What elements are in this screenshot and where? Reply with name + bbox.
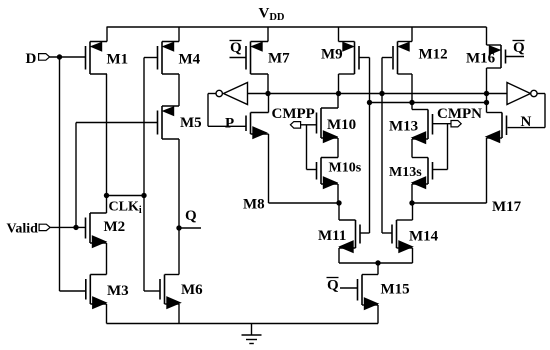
node M13s/M14/M17 junction — [409, 200, 414, 205]
node Q junction — [176, 225, 181, 230]
wire M4 source to VDD — [178, 27, 180, 42]
svg-text:P: P — [225, 116, 234, 132]
wire M13 gate to CMPN pin — [433, 123, 452, 125]
inverter U1 — [216, 83, 248, 105]
transistor M6 (NMOS) — [160, 275, 203, 309]
power rail VDD — [107, 26, 487, 28]
node Valid junction (M5 gate tap) — [73, 225, 78, 230]
wire upper latch line — [248, 93, 508, 95]
ground rail — [107, 323, 379, 325]
svg-text:M13s: M13s — [389, 165, 422, 180]
svg-text:M11: M11 — [318, 228, 346, 244]
transistor M2 (NMOS) — [86, 213, 126, 247]
svg-text:Q: Q — [230, 40, 242, 56]
transistor M10s (NMOS) — [317, 158, 362, 189]
wire M1 source to VDD — [106, 27, 108, 42]
svg-text:M14: M14 — [409, 229, 439, 245]
wire M11 gate to cross-couple — [360, 232, 370, 234]
wire M7 source to VDD — [267, 27, 269, 42]
transistor M13s (NMOS) — [389, 158, 433, 189]
wire M8 drain up to latch line — [268, 94, 270, 113]
net label Qbar at M16 gate — [513, 40, 526, 56]
net label Qbar at M15 gate — [327, 278, 340, 294]
wire M11 drain up to junction — [338, 203, 340, 220]
transistor M9 (PMOS) — [321, 42, 359, 75]
wire CLKi node horizontal — [107, 195, 145, 197]
wire M9 drain to latch line — [338, 74, 340, 94]
node upper line at M12/M14 gates — [379, 91, 384, 96]
wire M7 drain to latch line — [267, 74, 269, 94]
svg-text:M17: M17 — [492, 199, 522, 215]
node upper line at M16 — [484, 91, 489, 96]
node lower line at M9/M11 gates — [367, 100, 372, 105]
transistor M14 (NMOS) — [392, 220, 439, 252]
node CLKi right junction — [141, 193, 146, 198]
transistor M7 (PMOS) — [246, 42, 290, 75]
transistor M10 (NMOS) — [317, 108, 357, 142]
wire M1 drain down to CLKi node — [106, 74, 108, 196]
node common source junction — [375, 260, 380, 265]
svg-text:M4: M4 — [179, 52, 201, 68]
svg-text:M6: M6 — [181, 282, 203, 298]
wire M10s source down to M11 drain node — [337, 184, 339, 203]
svg-text:VDD: VDD — [259, 6, 285, 24]
wire M11/M14 common source line — [339, 262, 413, 264]
wire M2 drain up to CLKi node — [106, 196, 108, 214]
transistor M1 (PMOS) — [86, 42, 129, 75]
svg-text:CLKi: CLKi — [109, 200, 142, 217]
wire U2 output to M17 gate (node N) — [508, 94, 546, 128]
transistor M13 (NMOS) — [389, 110, 433, 144]
wire M14 gate to cross-couple — [382, 232, 392, 234]
wire M4 drain to M5 source — [178, 74, 180, 106]
wire D node down to M3 gate — [60, 57, 86, 291]
node upper line at M7/M8 — [265, 91, 270, 96]
wire M17 source down and left to M14 drain — [412, 138, 487, 203]
wire M10 source to M10s drain — [337, 138, 339, 158]
wire M5 gate to Valid node — [76, 123, 158, 228]
svg-text:M15: M15 — [381, 282, 410, 298]
wire Valid pin to M2 gate — [50, 226, 85, 228]
wire M14 drain up to junction — [412, 203, 414, 220]
transistor M17 (NMOS) — [487, 113, 522, 216]
svg-text:Valid: Valid — [7, 222, 39, 237]
svg-text:M5: M5 — [180, 115, 202, 131]
svg-text:M10: M10 — [327, 117, 356, 133]
wire CMPP pin to M10 gate — [301, 124, 317, 126]
input pin CMPP — [290, 122, 300, 129]
transistor M12 (PMOS) — [393, 42, 448, 75]
wire M15 gate stub — [340, 287, 357, 289]
wire M4 gate to CLKi node — [144, 58, 158, 196]
svg-text:M3: M3 — [107, 283, 129, 299]
input pin D — [26, 51, 50, 67]
wire CMPN to M13s gate — [433, 124, 448, 170]
transistor M16 (PMOS) — [466, 45, 506, 68]
svg-text:Q: Q — [327, 278, 339, 294]
wire M3 source to ground rail — [106, 304, 108, 324]
wire M12 drain to lower line — [411, 74, 413, 103]
transistor M3 (NMOS) — [86, 275, 129, 309]
transistor M11 (NMOS) — [318, 220, 360, 252]
svg-text:CMPN: CMPN — [437, 106, 482, 122]
wire lower latch line — [370, 102, 487, 104]
svg-text:M16: M16 — [466, 51, 496, 67]
svg-text:M13: M13 — [389, 119, 418, 135]
transistor M15 (NMOS) — [358, 275, 410, 310]
wire M5 drain down to Q node and M6 drain — [178, 139, 180, 275]
wire M12 gate cross-couple to M14 gate — [382, 58, 392, 234]
svg-text:M7: M7 — [268, 51, 290, 67]
wire M9 gate cross-couple to M11 gate — [359, 58, 370, 234]
wire M13 drain up to lower line — [411, 103, 413, 110]
wire M6 source to ground rail — [178, 304, 180, 324]
svg-text:CMPP: CMPP — [272, 106, 315, 122]
wire M8 source down and right to M11 drain — [269, 134, 340, 203]
svg-text:D: D — [26, 51, 37, 67]
wire Q output stub — [179, 227, 201, 229]
wire D pin to M1 gate — [50, 56, 86, 58]
svg-text:M9: M9 — [321, 47, 343, 63]
node CLKi left junction — [104, 193, 109, 198]
transistor M8 (NMOS) — [243, 113, 269, 213]
wire M11 source down to coupling line — [338, 248, 340, 263]
wire M13 source to M13s drain — [411, 139, 413, 158]
svg-text:M1: M1 — [107, 52, 129, 68]
svg-text:M12: M12 — [419, 47, 448, 63]
node lower line at M16/M17 — [484, 100, 489, 105]
ground symbol — [242, 324, 262, 344]
wire M2 source down to M3 drain — [106, 243, 108, 275]
wire U1 output to M8 gate (node P) — [208, 94, 246, 127]
wire M16 drain down to M17 drain — [486, 68, 488, 113]
svg-text:M10s: M10s — [329, 161, 362, 176]
input pin Valid — [7, 222, 51, 237]
transistor M4 (PMOS) — [158, 42, 201, 75]
svg-text:Q: Q — [185, 208, 197, 224]
node lower line at M12/M13 — [409, 100, 414, 105]
svg-text:M2: M2 — [104, 219, 126, 235]
svg-text:M8: M8 — [243, 197, 265, 213]
node D junction — [57, 54, 62, 59]
transistor M5 (PMOS) — [158, 106, 202, 139]
wire M13s source down to M14 drain node — [411, 184, 413, 203]
svg-text:N: N — [521, 114, 532, 130]
input pin CMPN — [451, 121, 461, 127]
wire M9 source to VDD — [338, 27, 340, 42]
wire CLKi node down to M6 gate — [144, 196, 160, 292]
wire M10 drain up to latch line — [337, 94, 339, 109]
wire M14 source down to coupling line — [412, 248, 414, 263]
svg-text:Q: Q — [513, 40, 525, 56]
wire M7 gate stub (Qbar) — [230, 57, 247, 59]
net label Qbar at M7 gate — [230, 40, 243, 56]
wire M16 source to VDD — [486, 27, 488, 45]
node M8/M10s/M11 junction — [336, 200, 341, 205]
wire CMPP to M10s gate — [307, 125, 317, 170]
wire M12 source to VDD — [411, 27, 413, 42]
inverter U2 — [507, 83, 537, 105]
wire M15 source to ground rail — [377, 305, 379, 324]
node upper line at M9/M10 — [336, 91, 341, 96]
wire M16 gate stub (Qbar) — [506, 56, 524, 58]
wire common source down to M15 drain — [377, 263, 379, 275]
